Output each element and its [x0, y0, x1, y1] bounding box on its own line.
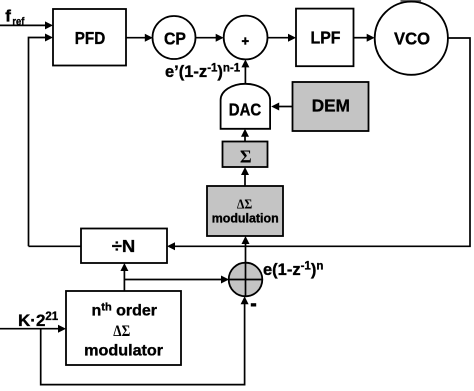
summing node plus circle	[224, 16, 268, 60]
block VCO	[375, 2, 448, 75]
wire divider output to PFD path	[29, 245, 82, 247]
svg-text:DEM: DEM	[312, 96, 350, 116]
block LPF	[296, 9, 354, 67]
wire modulator to divider	[120, 263, 128, 291]
block Sigma	[223, 142, 268, 168]
wire Sigma to DAC	[241, 129, 249, 142]
svg-text:ref: ref	[12, 16, 24, 28]
svg-text:DAC: DAC	[229, 100, 262, 120]
svg-text:modulation: modulation	[212, 211, 279, 226]
artifact gray mark above VCO	[401, 0, 422, 2]
label minus sign	[251, 303, 256, 306]
wire VCO output to divider	[167, 38, 470, 250]
block DAC	[221, 84, 271, 129]
wire DEM to DAC	[271, 103, 292, 111]
svg-text:e’(1-z-1)n-1: e’(1-z-1)n-1	[165, 63, 241, 82]
label e(1-z-1)n	[263, 261, 323, 280]
label f_ref	[5, 7, 24, 28]
svg-text:K·221: K·221	[18, 311, 59, 330]
label K 2^21	[18, 311, 59, 330]
wire f_ref input	[0, 21, 53, 29]
wire PFD to CP	[126, 34, 153, 42]
wire LPF to VCO	[354, 34, 375, 42]
block PFD	[53, 9, 126, 66]
block divider N	[81, 229, 167, 264]
error summing node circle	[229, 263, 263, 297]
label e'(1-z-1)n-1	[165, 63, 241, 82]
svg-text:LPF: LPF	[311, 28, 341, 48]
block DEM	[293, 82, 369, 131]
svg-text:VCO: VCO	[394, 29, 430, 49]
svg-text:e(1-z-1)n: e(1-z-1)n	[263, 261, 323, 280]
wire branch modulator output to error node	[124, 276, 229, 284]
svg-text:ΔΣ: ΔΣ	[113, 323, 130, 340]
svg-text:÷N: ÷N	[112, 236, 136, 256]
block nth order DeltaSigma modulator	[66, 291, 181, 365]
wire summer to LPF	[268, 34, 297, 42]
wire DAC to summer	[241, 59, 249, 84]
svg-text:PFD: PFD	[75, 28, 106, 48]
wire K input	[0, 325, 66, 333]
block DeltaSigma modulation	[207, 186, 283, 236]
svg-text:modulator: modulator	[84, 342, 163, 359]
block CP charge pump	[153, 16, 196, 59]
wire K path feedback bottom	[41, 296, 249, 384]
svg-text:f: f	[5, 7, 11, 26]
wire feedback to PFD second input	[29, 34, 54, 247]
wire CP to summer	[196, 34, 224, 42]
wire error node to modulation	[242, 236, 250, 263]
wire modulation to Sigma	[241, 167, 249, 186]
svg-text:Σ: Σ	[240, 146, 252, 166]
svg-text:CP: CP	[164, 28, 186, 48]
